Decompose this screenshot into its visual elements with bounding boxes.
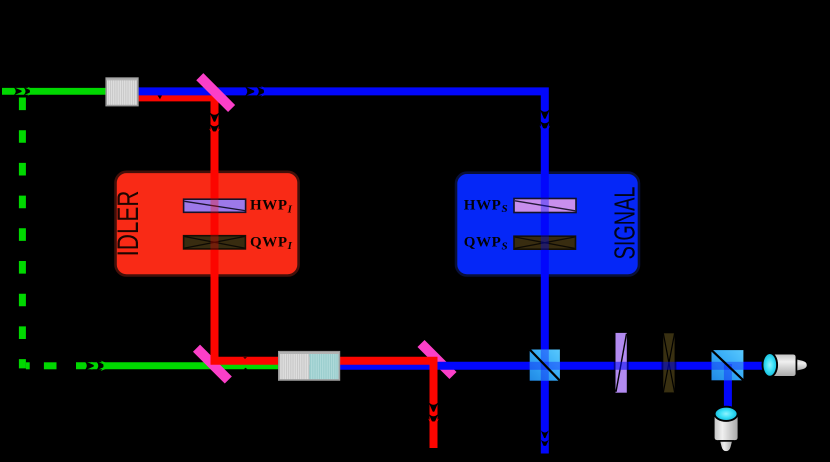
svg-text:SIGNAL: SIGNAL [610,187,642,260]
svg-text:QWPS: QWPS [464,235,508,253]
svg-text:HWPI: HWPI [250,198,293,216]
svg-text:HWPS: HWPS [464,197,508,215]
svg-text:QWPI: QWPI [250,234,293,252]
svg-text:IDLER: IDLER [111,191,145,257]
